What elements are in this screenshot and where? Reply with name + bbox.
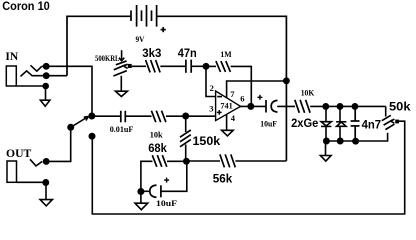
svg-text:4n7: 4n7 (362, 118, 382, 132)
ground 500KRL (115, 76, 127, 97)
wire pin 3 stub (186, 115, 216, 117)
svg-text:2: 2 (210, 83, 214, 93)
wire IN top contact to bypass vertical (42, 66, 92, 116)
wire 10uF to 10K (277, 105, 295, 107)
wire 56k to V+ vertical (235, 160, 286, 162)
node dot rail D1 (322, 103, 329, 110)
wire OUT jack sleeve (17, 181, 47, 183)
wire pin 4 down (226, 114, 228, 130)
capacitor C3 10uF plus sign (257, 95, 262, 100)
resistor R2 1M slashes (216, 61, 231, 72)
node dot OUT tip (43, 158, 50, 165)
battery BT1 9V (131, 5, 157, 27)
node dot OUT sleeve (42, 179, 49, 186)
switch SW1a top contact zigzag (31, 65, 42, 71)
wire 10K to diode rail (310, 105, 386, 107)
wire node to 10uF arc (141, 190, 150, 192)
wire 47n to node A (191, 65, 206, 67)
resistor R1 3k3 slashes (146, 60, 161, 72)
node dot bottom C4 (352, 138, 359, 145)
svg-text:9V: 9V (136, 34, 146, 44)
wire 3k3 to 47n (160, 65, 186, 67)
svg-text:741: 741 (220, 100, 232, 110)
wire 10uF to node C vertical (161, 161, 187, 191)
wire wiper to 3k3 (132, 65, 146, 67)
svg-text:3k3: 3k3 (142, 46, 161, 60)
wire 10k to node B (166, 115, 186, 117)
svg-text:6: 6 (240, 93, 244, 103)
potentiometer VR1 500KRL body slashes (113, 61, 126, 76)
svg-text:4: 4 (231, 113, 236, 123)
ground op-amp pin 4 (222, 130, 234, 136)
node dot bottom D1 (323, 138, 330, 145)
svg-text:3: 3 (209, 104, 213, 114)
wire IN middle contact to battery minus (33, 75, 67, 77)
op-amp plus marking (217, 110, 222, 115)
svg-text:68k: 68k (148, 141, 167, 155)
wire battery right to V+ vertical (157, 16, 287, 161)
wire 150k to node C (185, 145, 187, 162)
capacitor C2 0.01uF (121, 111, 126, 123)
jack J1 IN body (6, 66, 16, 86)
resistor R6 10K slashes (295, 100, 310, 113)
capacitor C5 10uF electrolytic left (150, 185, 161, 197)
resistor R7 56k slashes (220, 154, 235, 167)
svg-text:OUT: OUT (6, 146, 31, 160)
wire 50k wiper to bottom long wire (92, 121, 404, 214)
node dot input line (88, 113, 95, 120)
node dot pin 7 rail (283, 77, 290, 84)
potentiometer VR2 wiper arrow and square (391, 119, 395, 123)
resistor R4 150k slashes (180, 130, 191, 147)
svg-text:1M: 1M (220, 49, 231, 59)
wire 1M feedback to output node (231, 66, 252, 106)
switch SW1b middle contact zigzag (21, 71, 33, 77)
svg-text:10K: 10K (301, 88, 315, 98)
wire node C to 56k (186, 160, 220, 162)
node dot IN top contact (43, 63, 50, 70)
node dot bottom D2 (337, 138, 344, 145)
switch SW2a OUT contact zigzag (30, 159, 42, 166)
node C dot (183, 158, 190, 165)
capacitor C1 47n (186, 60, 191, 73)
svg-text:IN: IN (5, 49, 18, 63)
wire pin 7 to V+ (227, 81, 287, 98)
node B dot (182, 113, 189, 120)
switch arm arrow to input node (71, 117, 89, 128)
potentiometer VR2 50k top wire (385, 106, 387, 116)
wire 68k to corner down to cap node (141, 161, 153, 191)
svg-text:7: 7 (230, 89, 235, 99)
svg-text:10uF: 10uF (156, 198, 177, 208)
wire OUT tip to switch arm (46, 127, 70, 161)
capacitor C4 4n7 (351, 106, 360, 141)
diode D1 down (321, 106, 331, 141)
wire node C to 68k (167, 160, 186, 162)
op-amp U1 741 triangle (216, 91, 241, 121)
svg-text:500KRL: 500KRL (95, 53, 120, 63)
wire diode bottom rail (326, 133, 387, 141)
wire node A down to pin 2 (206, 66, 216, 96)
capacitor C3 10uF output electrolytic (266, 100, 278, 113)
svg-text:0.01uF: 0.01uF (110, 124, 134, 134)
wire IN jack sleeve (16, 85, 46, 87)
potentiometer VR2 50k body slashes (382, 115, 395, 129)
capacitor C5 plus sign (164, 178, 169, 183)
svg-text:2xGe: 2xGe (291, 116, 318, 130)
node dot output (247, 103, 254, 110)
ground 68k 10uF (135, 192, 148, 210)
resistor R5 68k slashes (152, 155, 167, 167)
resistor R3 10k slashes (151, 111, 166, 123)
svg-text:10k: 10k (150, 130, 163, 140)
wire node A to 1M (206, 65, 216, 67)
jack J2 OUT body (7, 161, 17, 182)
svg-text:50k: 50k (389, 100, 411, 114)
node dot rail C4 (351, 103, 358, 110)
potentiometer VR1 wiper arrow and square (124, 64, 128, 68)
wire node B down (185, 116, 187, 132)
wire op-amp output (241, 105, 267, 107)
node dot IN sleeve (42, 83, 49, 90)
svg-text:56k: 56k (213, 172, 233, 186)
svg-text:150k: 150k (193, 134, 221, 148)
node dot rail D2 (337, 103, 344, 110)
svg-text:47n: 47n (178, 46, 197, 60)
op-amp minus marking (217, 96, 222, 98)
wire battery top rail (67, 16, 131, 75)
battery plus sign (161, 27, 166, 32)
node dot pot wire top (89, 133, 96, 140)
ground OUT jack (40, 183, 52, 206)
ground IN jack (40, 86, 50, 106)
svg-text:10uF: 10uF (260, 119, 277, 129)
wire 0.01uF to 10k (125, 115, 151, 117)
node A dot (203, 63, 210, 70)
svg-text:Coron 10: Coron 10 (2, 0, 50, 13)
potentiometer VR1 500KRL input arrow (119, 50, 124, 61)
node dot 10uF left (137, 188, 144, 195)
wire input line to 0.01uF (92, 115, 121, 117)
diode D2 up (336, 106, 346, 141)
node dot IN middle contact (43, 72, 50, 79)
node dot switch arm (67, 124, 74, 131)
ground diode rail (320, 141, 331, 161)
